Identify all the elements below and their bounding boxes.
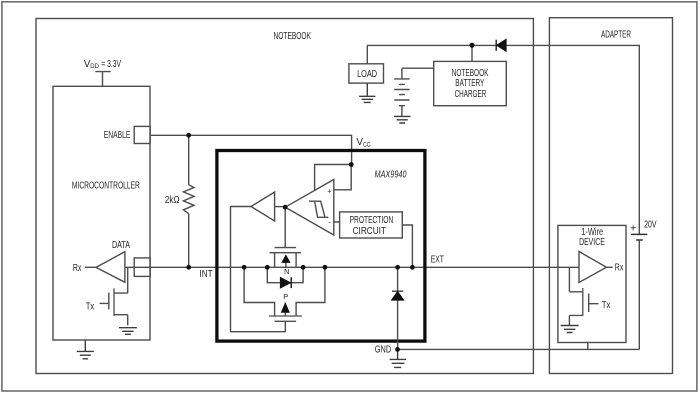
svg-text:20V: 20V (644, 219, 657, 230)
svg-text:EXT: EXT (431, 254, 444, 265)
svg-text:ADAPTER: ADAPTER (601, 29, 631, 40)
svg-text:CIRCUIT: CIRCUIT (353, 226, 386, 237)
svg-text:Rx: Rx (615, 263, 624, 274)
svg-text:CHARGER: CHARGER (455, 89, 487, 100)
svg-text:P: P (283, 292, 288, 301)
svg-text:GND: GND (375, 345, 391, 356)
svg-text:MICROCONTROLLER: MICROCONTROLLER (72, 181, 140, 192)
svg-text:DEVICE: DEVICE (579, 237, 605, 248)
svg-text:CC: CC (363, 142, 371, 149)
svg-text:= 3.3V: = 3.3V (101, 59, 121, 70)
svg-text:NOTEBOOK: NOTEBOOK (274, 31, 312, 42)
svg-text:MAX9940: MAX9940 (375, 170, 407, 181)
svg-text:+: + (327, 189, 331, 196)
svg-text:N: N (284, 267, 289, 276)
svg-text:DD: DD (90, 63, 99, 70)
svg-text:LOAD: LOAD (357, 69, 377, 80)
svg-text:PROTECTION: PROTECTION (350, 215, 394, 226)
svg-text:INT: INT (200, 269, 213, 280)
svg-text:BATTERY: BATTERY (455, 78, 484, 89)
svg-text:Tx: Tx (86, 302, 95, 313)
svg-text:-: - (328, 218, 331, 227)
svg-text:ENABLE: ENABLE (104, 130, 131, 141)
svg-text:2kΩ: 2kΩ (165, 195, 180, 206)
svg-text:DATA: DATA (112, 240, 130, 251)
svg-text:Rx: Rx (73, 263, 82, 274)
svg-text:+: + (630, 223, 637, 234)
svg-text:Tx: Tx (602, 300, 611, 311)
